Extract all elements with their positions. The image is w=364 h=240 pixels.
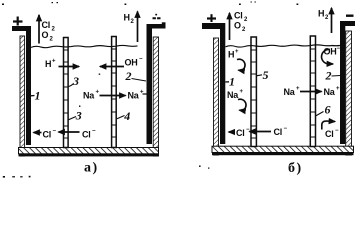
anode electrode 1 with lead (cell a) (12, 26, 31, 145)
ion OH- with circulation arrow (cell b) (322, 46, 341, 64)
svg-text:6: 6 (325, 103, 331, 117)
svg-text:+: + (296, 86, 300, 92)
label H2 (cell b) (318, 8, 329, 21)
svg-text:OH: OH (324, 47, 337, 57)
svg-text:Na: Na (83, 91, 95, 101)
svg-text:+: + (240, 89, 244, 95)
water line (cell b) (226, 45, 341, 47)
svg-text:+: + (336, 86, 340, 92)
page-bottom cut text fragments (3, 166, 210, 178)
gas arrow Cl2/O2 (cell b) (229, 13, 231, 40)
svg-text:−: − (284, 126, 288, 132)
left wall (cell b) (214, 38, 219, 155)
water line (cell a) (31, 45, 138, 47)
svg-text:3: 3 (75, 109, 82, 123)
svg-text:+: + (52, 59, 56, 65)
svg-text:Cl: Cl (234, 11, 243, 21)
svg-text:+: + (96, 90, 100, 96)
svg-text:−: − (335, 128, 339, 134)
label O2 (cell a) (42, 30, 54, 43)
gas arrow Cl2/O2 (cell a) (38, 15, 40, 44)
caption b) (288, 161, 303, 176)
ion H+ with arrow (cell a) (45, 59, 79, 70)
svg-text:−: − (92, 129, 96, 135)
svg-text:2: 2 (325, 69, 332, 83)
svg-text:Na: Na (324, 87, 336, 97)
minus terminal (cell b) (346, 14, 354, 16)
svg-text:Na: Na (227, 90, 239, 100)
svg-text:−: − (139, 57, 143, 63)
anode electrode 1 with lead (cell b) (202, 23, 225, 144)
specks (scan noise) (2, 2, 298, 107)
callout 2 (cell a cathode) (125, 69, 147, 83)
svg-text:−: − (53, 129, 57, 135)
callout 3 lower (cell a diaphragm) (69, 109, 82, 123)
svg-text:Cl: Cl (274, 127, 283, 137)
ion Na+ with circulation arrow (cell b) (227, 89, 246, 111)
ion Cl- with circulation arrow (cell b) (322, 121, 339, 139)
plus terminal (cell a) (13, 17, 23, 26)
ion OH- with arrow (cell a) (100, 57, 143, 68)
svg-text:Cl: Cl (82, 130, 91, 140)
callout 1 (cell a anode) (31, 89, 41, 103)
svg-text:−: − (246, 127, 250, 133)
svg-text:б): б) (288, 161, 303, 176)
svg-text:a): a) (84, 161, 99, 176)
caption a) (84, 161, 99, 176)
label Cl2 (cell a) (42, 20, 56, 33)
gas arrow H2 (cell a) (137, 12, 139, 43)
svg-text:Na: Na (128, 91, 140, 101)
svg-text:Na: Na (284, 87, 296, 97)
floor (cell b) (212, 146, 354, 155)
minus terminal (cell a) (153, 14, 162, 18)
label H2 (cell a) (124, 12, 135, 25)
svg-text:H: H (228, 50, 234, 60)
svg-text:+: + (235, 49, 239, 55)
svg-text:5: 5 (263, 68, 269, 82)
plus terminal (cell b) (207, 14, 216, 22)
svg-text:1: 1 (229, 75, 235, 89)
right wall (cell b) (346, 31, 352, 155)
svg-text:−: − (337, 46, 341, 52)
callout 4 (cell a diaphragm) (117, 109, 130, 123)
svg-text:OH: OH (125, 58, 138, 68)
ion Na+ to Na+ arrow (cell b) (284, 86, 341, 97)
svg-text:H: H (45, 59, 51, 69)
callout 1 (cell b anode) (225, 75, 235, 89)
diaphragm 3 (cell a, left) (64, 38, 69, 148)
svg-text:H: H (124, 12, 130, 22)
diaphragm 5 (cell b, left) (251, 37, 256, 147)
diaphragm 4 (cell a, right) (112, 37, 117, 148)
gas arrow H2 (cell b) (331, 8, 333, 33)
svg-text:4: 4 (123, 109, 130, 123)
svg-text:Cl: Cl (325, 129, 334, 139)
label O2 (cell b) (234, 21, 246, 34)
callout 6 (cell b diaphragm) (316, 103, 331, 117)
svg-text:Cl: Cl (236, 128, 245, 138)
ion Cl- arrow to anode (cell b) (229, 127, 250, 138)
diaphragm 6 (cell b, right) (310, 36, 315, 147)
callout 5 (cell b diaphragm) (257, 68, 269, 82)
right wall (cell a) (153, 37, 158, 156)
ion Cl- arrow to anode (cell a) (34, 129, 57, 140)
svg-text:O: O (42, 30, 49, 40)
ion Na+ to Na+ arrow (cell a) (83, 90, 147, 101)
label Cl2 (cell b) (234, 11, 248, 24)
ion Cl- arrow through diaphragm (cell b) (250, 126, 288, 137)
svg-text:Cl: Cl (42, 20, 51, 30)
cathode electrode 2 with lead (cell a) (147, 22, 166, 144)
svg-text:O: O (234, 21, 241, 31)
cathode electrode 2 with lead (cell b) (340, 21, 355, 144)
svg-text:1: 1 (35, 89, 41, 103)
svg-text:Cl: Cl (43, 130, 52, 140)
ion H+ with circulation arrow (cell b) (228, 49, 245, 71)
svg-text:H: H (318, 8, 324, 18)
floor (cell a) (19, 148, 159, 157)
svg-text:2: 2 (125, 69, 132, 83)
svg-text:3: 3 (72, 74, 79, 88)
callout 2 (cell b cathode) (325, 69, 341, 83)
left wall (cell a) (20, 36, 25, 156)
ion Cl- arrow through diaphragm (cell a) (59, 129, 97, 140)
callout 3 upper (cell a diaphragm) (69, 74, 80, 88)
